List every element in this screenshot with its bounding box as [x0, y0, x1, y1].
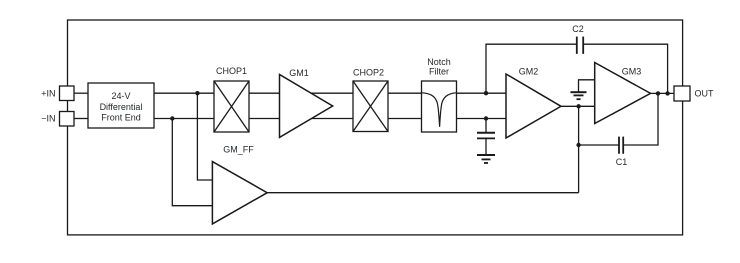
- pin -IN: [60, 112, 75, 127]
- wire GM3 output to OUT: [651, 92, 675, 94]
- block 24-V differential front end: [88, 83, 154, 128]
- ground below capacitor: [477, 155, 495, 163]
- outer border: [68, 20, 683, 235]
- wire -IN to front end: [74, 118, 88, 120]
- svg-text:GM3: GM3: [622, 66, 642, 76]
- chopper CHOP2: [353, 81, 388, 132]
- svg-text:C1: C1: [616, 157, 628, 167]
- capacitor C1: [619, 137, 623, 154]
- wire GM2 output to GM3: [561, 105, 595, 107]
- wire feedforward tap upper vertical: [197, 93, 212, 180]
- op-amp GM3: [595, 63, 651, 124]
- wire notch to GM2 upper: [457, 92, 507, 94]
- junction node notch out lower: [484, 116, 488, 120]
- wire C2 feedback right: [583, 44, 667, 93]
- wire feedforward tap lower vertical: [172, 119, 212, 206]
- wire +IN to front end: [74, 92, 88, 94]
- op-amp GM2: [506, 74, 561, 138]
- svg-text:CHOP2: CHOP2: [353, 67, 384, 77]
- ground at GM3 positive input: [571, 80, 595, 99]
- pin OUT: [674, 86, 690, 101]
- svg-text:OUT: OUT: [695, 89, 715, 99]
- svg-text:Filter: Filter: [429, 67, 449, 77]
- junction node GM2 output: [576, 104, 580, 108]
- svg-text:Differential: Differential: [100, 102, 143, 112]
- svg-text:GM_FF: GM_FF: [223, 144, 254, 154]
- svg-text:GM2: GM2: [519, 67, 539, 77]
- chopper CHOP1: [214, 81, 249, 132]
- junction node lower tap: [170, 116, 174, 120]
- wire GM_FF output: [267, 192, 578, 194]
- svg-text:−IN: −IN: [41, 114, 55, 124]
- svg-text:Notch: Notch: [427, 57, 451, 67]
- wire front end to CHOP1 lower: [154, 118, 214, 120]
- op-amp GM_FF feedforward: [212, 162, 267, 224]
- wire C2 feedback left vertical: [486, 44, 577, 93]
- wire GM2 output node vertical: [578, 106, 580, 192]
- wire CHOP1 to CHOP2 upper (passes under GM1): [249, 92, 353, 94]
- junction node C1 branch: [576, 143, 580, 147]
- svg-text:+IN: +IN: [41, 89, 55, 99]
- capacitor C2: [577, 37, 583, 54]
- svg-text:C2: C2: [572, 24, 584, 34]
- notch filter block: [422, 81, 457, 132]
- junction node notch out upper: [484, 91, 488, 95]
- svg-text:Front End: Front End: [101, 113, 141, 123]
- wire CHOP2 to notch upper: [388, 92, 422, 94]
- wire CHOP1 to CHOP2 lower (passes under GM1): [249, 118, 353, 120]
- op-amp GM1: [280, 75, 333, 138]
- svg-text:24-V: 24-V: [111, 91, 130, 101]
- pin +IN: [60, 86, 75, 101]
- junction node C1 to output: [656, 91, 660, 95]
- notch filter response curve: [422, 93, 457, 127]
- wire notch to GM2 lower: [457, 118, 507, 120]
- junction node upper tap: [195, 91, 199, 95]
- capacitor to ground at notch output: [477, 119, 495, 156]
- wire C1 feedback right: [623, 93, 658, 145]
- wire CHOP2 to notch lower: [388, 118, 422, 120]
- wire front end to CHOP1 upper: [154, 92, 214, 94]
- wire C1 feedback left: [579, 144, 619, 146]
- svg-text:CHOP1: CHOP1: [216, 66, 247, 76]
- svg-text:GM1: GM1: [289, 68, 309, 78]
- junction node C2 to output: [665, 91, 669, 95]
